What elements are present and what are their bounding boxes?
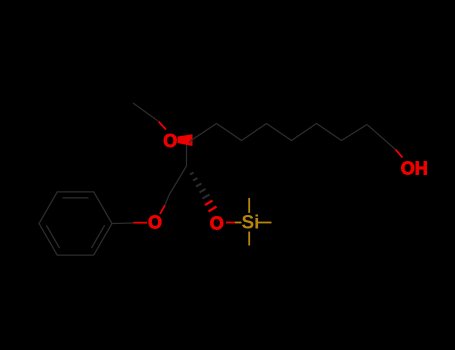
Si methyl right bbox=[258, 222, 272, 224]
hashed wedge V to O3 : grey hashes bbox=[190, 173, 210, 199]
svg-text:O: O bbox=[210, 213, 224, 233]
wire V up to C3 bbox=[186, 145, 188, 167]
wire O2 left red half bbox=[134, 222, 148, 224]
wire O2 to C1 red half bbox=[160, 205, 165, 214]
main chain C3..C10 bbox=[190, 124, 368, 144]
wire O3 to Si olive half bbox=[235, 222, 242, 224]
svg-text:O: O bbox=[163, 131, 177, 151]
wire C10 to O4 red half bbox=[396, 150, 403, 158]
methoxy methyl grey half bbox=[133, 103, 158, 121]
ring double bond inner lines bbox=[63, 197, 89, 199]
wire ring to O2 (grey half) bbox=[112, 222, 134, 225]
hashed wedge V to O3 : red hashes bbox=[205, 201, 217, 212]
svg-text:O: O bbox=[148, 213, 162, 233]
svg-text:Si: Si bbox=[242, 213, 260, 234]
Si methyl up bbox=[248, 198, 250, 213]
wire O3 to Si red half bbox=[226, 222, 235, 224]
benzene ring C6H5 bbox=[39, 192, 112, 255]
svg-text:OH: OH bbox=[401, 159, 428, 179]
wedge bond O1 to C3 bbox=[178, 134, 193, 146]
wire C10 to O4 grey half bbox=[367, 125, 396, 150]
Si methyl down bbox=[248, 232, 250, 246]
methoxy methyl red half bbox=[159, 122, 167, 130]
wire C1 to V grey bbox=[165, 166, 187, 205]
